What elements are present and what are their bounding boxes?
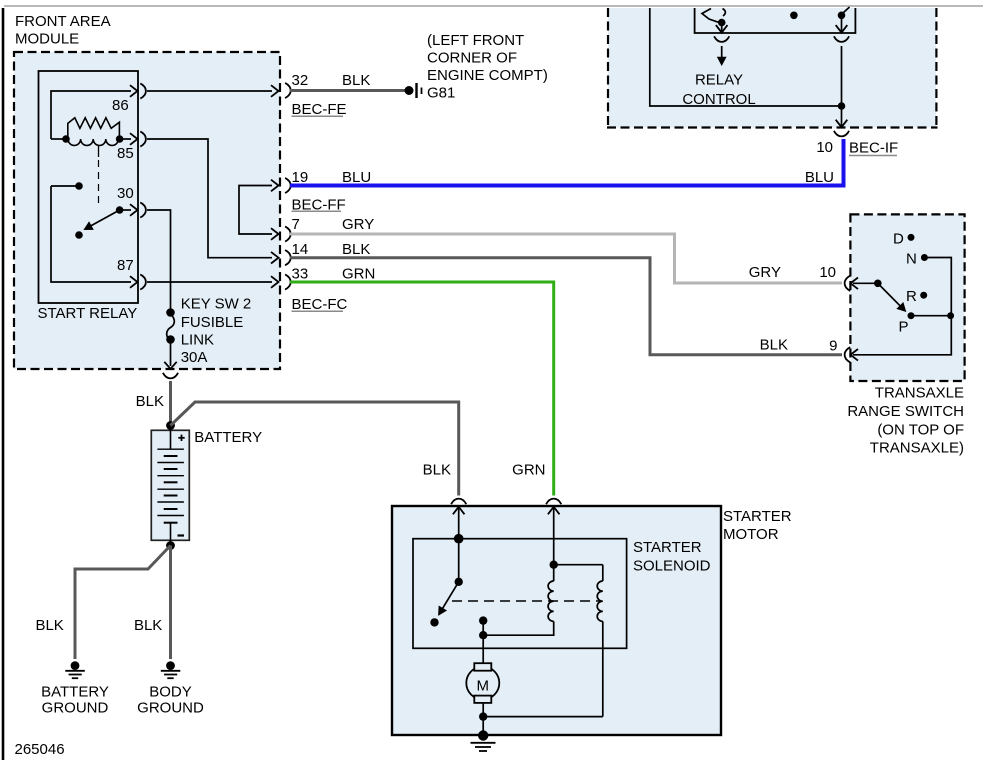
wire: pin 85 to pin 14 row <box>147 139 279 264</box>
svg-text:D: D <box>893 231 904 248</box>
svg-text:P: P <box>899 319 909 336</box>
connector: relay control left branch <box>714 36 729 42</box>
solenoid switch <box>430 539 463 627</box>
svg-text:N: N <box>906 251 917 268</box>
wire: motor to ground bus <box>479 703 603 733</box>
svg-text:10: 10 <box>819 264 836 281</box>
connector: pin 86 <box>140 83 146 98</box>
wire: N to right bus <box>924 258 951 316</box>
fusible link F1: KEY SW 2 FUSIBLE LINK 30A <box>164 296 251 369</box>
ground: battery ground <box>41 661 109 716</box>
connector pin 7 <box>285 216 374 242</box>
wire: relay pin 30 internal <box>120 204 138 216</box>
connector: GRN into starter motor <box>546 499 561 505</box>
node P <box>899 312 915 335</box>
svg-text:KEY SW 2: KEY SW 2 <box>181 296 252 313</box>
svg-text:GRN: GRN <box>342 266 375 283</box>
wire: relay pin 86 internal <box>51 85 138 139</box>
solenoid hold-in coil <box>554 565 603 717</box>
wire: battery positive to starter motor BLK <box>171 402 459 496</box>
svg-text:STARTER: STARTER <box>723 508 792 525</box>
svg-text:ENGINE COMPT): ENGINE COMPT) <box>427 67 548 84</box>
module: relay control module box (top right) <box>607 8 938 128</box>
svg-text:STARTER: STARTER <box>633 539 702 556</box>
svg-text:(ON TOP OF: (ON TOP OF <box>877 421 964 438</box>
wire: P to right bus <box>911 312 954 319</box>
connector: pin 87 <box>140 274 146 289</box>
svg-text:BEC-FE: BEC-FE <box>292 101 347 118</box>
svg-text:33: 33 <box>292 266 309 283</box>
connector: right branch through inner box <box>834 36 849 42</box>
svg-text:19: 19 <box>292 169 309 186</box>
svg-text:7: 7 <box>292 216 300 233</box>
svg-text:TRANSAXLE): TRANSAXLE) <box>870 440 964 457</box>
connector: pin 85 <box>140 131 146 146</box>
relay K1: START RELAY box <box>38 71 139 322</box>
wire: BLK from pin 14 to transaxle pin 9 <box>290 258 842 355</box>
svg-text:TRANSAXLE: TRANSAXLE <box>875 385 964 402</box>
svg-text:BLK: BLK <box>760 337 788 354</box>
node: solenoid output contacts <box>479 616 487 639</box>
svg-text:R: R <box>906 288 917 305</box>
wire: BLU from pin 10 to pin 19 <box>290 139 844 186</box>
svg-text:BODY: BODY <box>149 684 192 701</box>
dashed link in solenoid <box>452 600 600 602</box>
connector pin 33 <box>285 266 375 314</box>
connector pin 32 <box>285 72 370 118</box>
svg-text:86: 86 <box>112 97 129 114</box>
svg-text:FUSIBLE: FUSIBLE <box>181 314 244 331</box>
wire: GRY from pin 7 to transaxle pin 10 <box>290 234 842 283</box>
wire: relay pin 87 internal <box>117 257 138 288</box>
ground: starter motor case ground <box>471 730 496 751</box>
svg-text:BLK: BLK <box>134 617 162 634</box>
node: relay control middle pin <box>790 12 798 20</box>
switch: TRANSAXLE RANGE SWITCH box <box>847 214 964 456</box>
node: relay control right pin <box>838 7 850 19</box>
svg-text:RANGE SWITCH: RANGE SWITCH <box>847 403 964 420</box>
wire: BLK fusible link to battery <box>136 381 171 423</box>
svg-text:BLK: BLK <box>136 393 164 410</box>
svg-text:14: 14 <box>292 241 309 258</box>
solenoid: STARTER SOLENOID box <box>413 539 711 649</box>
motor M1 <box>466 663 499 703</box>
wire: relay control right branch down <box>836 15 848 32</box>
svg-text:32: 32 <box>292 72 309 89</box>
svg-text:(LEFT FRONT: (LEFT FRONT <box>427 32 524 49</box>
svg-text:9: 9 <box>829 338 837 355</box>
svg-text:BEC-FC: BEC-FC <box>292 296 348 313</box>
svg-text:FRONT AREA: FRONT AREA <box>15 13 111 30</box>
solenoid pull-in coil <box>483 561 558 636</box>
connector: transaxle pin 9 <box>845 347 851 362</box>
arrow to RELAY CONTROL label <box>682 46 755 108</box>
svg-text:BEC-IF: BEC-IF <box>849 140 898 157</box>
svg-text:85: 85 <box>117 145 134 162</box>
svg-text:SOLENOID: SOLENOID <box>633 558 711 575</box>
svg-text:RELAY: RELAY <box>695 72 743 89</box>
wire: GRN from pin 33 to starter solenoid <box>290 282 554 496</box>
wire: right branch to module edge <box>836 46 848 127</box>
arrow: GRN entry <box>548 507 560 565</box>
connector: pin 10 BEC-IF <box>816 131 898 157</box>
svg-text:BLK: BLK <box>35 617 63 634</box>
switch contacts in relay <box>51 182 131 282</box>
wire: pin 30 to fusible link <box>147 210 171 309</box>
switch arm pin 30 <box>75 185 133 239</box>
wire: pin 32 BLK to G81 <box>290 89 405 92</box>
wire: pin 87 to module edge <box>147 276 279 288</box>
module: FRONT AREA MODULE box <box>14 13 280 369</box>
ground G81 <box>405 32 548 102</box>
connector pin 14 <box>285 241 370 265</box>
relay coil resistor between 86 and 85 <box>51 118 123 146</box>
wire: right bus to pin 9 <box>851 316 952 361</box>
dashed mechanical link in relay <box>98 146 100 158</box>
svg-text:GRN: GRN <box>512 462 545 479</box>
connector: fusible link to battery <box>163 373 178 379</box>
motor: STARTER MOTOR box <box>392 506 792 735</box>
svg-text:10: 10 <box>816 139 833 156</box>
node D <box>893 231 915 248</box>
svg-text:BATTERY: BATTERY <box>194 429 262 446</box>
switch arm common to P <box>874 280 910 316</box>
svg-text:30: 30 <box>117 185 134 202</box>
svg-text:MOTOR: MOTOR <box>723 526 779 543</box>
svg-text:BATTERY: BATTERY <box>41 684 109 701</box>
ground: body ground <box>137 661 204 716</box>
svg-text:G81: G81 <box>427 85 455 102</box>
svg-text:CORNER OF: CORNER OF <box>427 50 517 67</box>
svg-text:BLU: BLU <box>805 169 834 186</box>
wire: horizontal feed inside relay control module <box>650 8 846 110</box>
wire: common to pin 10 <box>851 278 878 290</box>
connector: pin 30 <box>140 202 146 217</box>
wire: battery negative to body ground <box>134 546 171 660</box>
svg-text:MODULE: MODULE <box>15 31 79 48</box>
svg-text:LINK: LINK <box>181 331 214 348</box>
connector pin 19 <box>285 169 371 214</box>
svg-text:BLK: BLK <box>423 462 451 479</box>
wire: pin 86 to module edge <box>147 85 279 97</box>
arrow: BLK entry <box>453 507 465 544</box>
inner box of relay control <box>695 8 856 33</box>
svg-text:30A: 30A <box>181 349 208 366</box>
svg-text:M: M <box>477 678 490 695</box>
battery B1 <box>151 421 262 550</box>
arrow: relay control left branch <box>716 23 728 33</box>
svg-text:BLU: BLU <box>342 169 371 186</box>
svg-text:GROUND: GROUND <box>42 700 109 717</box>
node N <box>906 251 928 268</box>
connector: BLK into starter motor <box>451 499 466 505</box>
svg-text:BLK: BLK <box>342 72 370 89</box>
node R <box>906 288 927 305</box>
svg-text:START RELAY: START RELAY <box>38 305 138 322</box>
svg-text:BLK: BLK <box>342 241 370 258</box>
svg-text:GROUND: GROUND <box>137 700 204 717</box>
svg-text:GRY: GRY <box>749 264 781 281</box>
switch symbol (cut off) in relay control <box>702 9 726 27</box>
wire: bracket joining pins 19 and 7 <box>239 180 279 240</box>
svg-text:87: 87 <box>117 257 134 274</box>
wire: battery negative to battery ground <box>35 546 170 660</box>
wire: relay pin 85 internal <box>117 133 138 162</box>
wire: solenoid to motor <box>482 635 484 663</box>
connector: transaxle pin 10 <box>845 276 851 291</box>
svg-text:265046: 265046 <box>15 741 65 758</box>
svg-text:GRY: GRY <box>342 216 374 233</box>
